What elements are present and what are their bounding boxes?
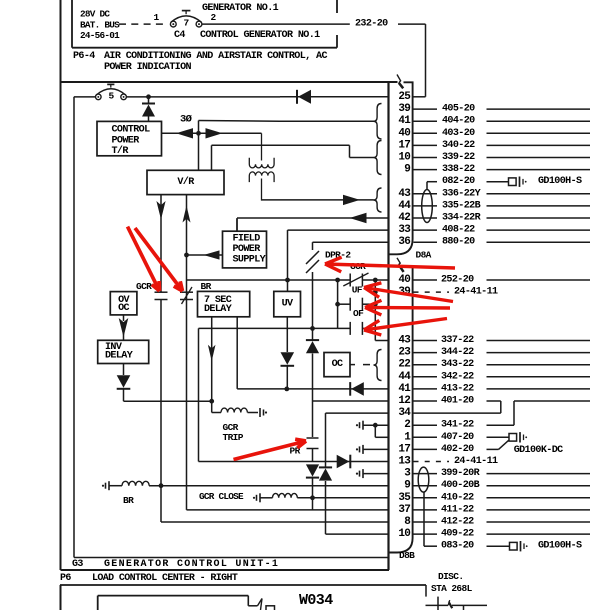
svg-text:40: 40 bbox=[398, 274, 410, 286]
svg-text:402-20: 402-20 bbox=[441, 444, 474, 455]
svg-text:404-20: 404-20 bbox=[442, 116, 475, 127]
svg-text:409-22: 409-22 bbox=[441, 529, 474, 540]
svg-text:24-56-01: 24-56-01 bbox=[80, 30, 120, 41]
svg-text:43: 43 bbox=[398, 335, 411, 347]
svg-text:342-22: 342-22 bbox=[441, 371, 474, 382]
svg-text:252-20: 252-20 bbox=[441, 275, 474, 286]
svg-text:336-22Y: 336-22Y bbox=[442, 188, 482, 199]
svg-text:24-41-11: 24-41-11 bbox=[454, 287, 498, 298]
svg-text:44: 44 bbox=[398, 200, 411, 212]
svg-text:GD100K-DC: GD100K-DC bbox=[514, 445, 563, 456]
svg-text:BR: BR bbox=[201, 281, 212, 292]
svg-text:413-22: 413-22 bbox=[441, 383, 474, 394]
svg-text:10: 10 bbox=[398, 152, 410, 164]
svg-text:22: 22 bbox=[398, 359, 410, 371]
svg-text:C4: C4 bbox=[174, 30, 185, 41]
svg-text:DELAY: DELAY bbox=[105, 351, 134, 362]
svg-text:3Ø: 3Ø bbox=[180, 114, 193, 126]
svg-text:UV: UV bbox=[282, 299, 294, 310]
svg-text:POWER: POWER bbox=[112, 135, 141, 146]
svg-text:41: 41 bbox=[398, 115, 411, 127]
svg-text:P6-4: P6-4 bbox=[73, 51, 95, 62]
svg-text:399-20R: 399-20R bbox=[441, 468, 481, 479]
svg-text:V/R: V/R bbox=[177, 176, 195, 188]
svg-text:405-20: 405-20 bbox=[442, 104, 475, 115]
svg-text:343-22: 343-22 bbox=[441, 359, 474, 370]
svg-text:FIELD: FIELD bbox=[233, 233, 261, 244]
svg-text:43: 43 bbox=[398, 188, 411, 200]
svg-text:411-22: 411-22 bbox=[441, 504, 474, 515]
svg-text:39: 39 bbox=[398, 103, 410, 115]
svg-text:POWER INDICATION: POWER INDICATION bbox=[104, 62, 192, 73]
svg-text:41: 41 bbox=[398, 383, 411, 395]
svg-text:412-22: 412-22 bbox=[441, 517, 474, 528]
svg-text:23: 23 bbox=[398, 347, 411, 359]
svg-text:344-22: 344-22 bbox=[441, 347, 474, 358]
svg-text:36: 36 bbox=[398, 236, 410, 248]
svg-text:401-20: 401-20 bbox=[441, 396, 474, 407]
svg-text:BR: BR bbox=[123, 495, 134, 506]
svg-text:AIR CONDITIONING AND AIRSTAIR: AIR CONDITIONING AND AIRSTAIR CONTROL, A… bbox=[104, 51, 327, 62]
svg-text:28V DC: 28V DC bbox=[80, 9, 110, 20]
svg-text:880-20: 880-20 bbox=[442, 237, 475, 248]
svg-text:UF: UF bbox=[352, 284, 363, 295]
svg-text:335-22B: 335-22B bbox=[442, 200, 481, 211]
svg-text:P6: P6 bbox=[60, 573, 71, 584]
svg-text:340-22: 340-22 bbox=[442, 140, 475, 151]
svg-text:24-41-11: 24-41-11 bbox=[454, 456, 498, 467]
svg-text:334-22R: 334-22R bbox=[442, 213, 482, 224]
svg-text:9: 9 bbox=[404, 480, 410, 492]
svg-text:40: 40 bbox=[398, 127, 410, 139]
svg-text:339-22: 339-22 bbox=[442, 152, 475, 163]
svg-text:D8A: D8A bbox=[416, 250, 432, 261]
svg-text:OC: OC bbox=[332, 359, 343, 370]
svg-text:GCR CLOSE: GCR CLOSE bbox=[199, 491, 244, 502]
svg-text:44: 44 bbox=[398, 371, 411, 383]
svg-text:408-22: 408-22 bbox=[442, 225, 475, 236]
svg-text:GD100H-S: GD100H-S bbox=[538, 541, 582, 552]
svg-text:232-20: 232-20 bbox=[355, 18, 388, 29]
svg-text:CONTROL GENERATOR NO.1: CONTROL GENERATOR NO.1 bbox=[200, 30, 320, 41]
svg-text:DISC.: DISC. bbox=[438, 571, 463, 582]
svg-text:400-20B: 400-20B bbox=[441, 480, 480, 491]
svg-text:407-20: 407-20 bbox=[441, 432, 474, 443]
svg-text:TRIP: TRIP bbox=[223, 432, 244, 443]
svg-text:403-20: 403-20 bbox=[442, 128, 475, 139]
svg-text:DELAY: DELAY bbox=[204, 304, 233, 315]
svg-text:D8B: D8B bbox=[399, 550, 415, 561]
svg-text:G3: G3 bbox=[72, 559, 83, 570]
svg-text:GD100H-S: GD100H-S bbox=[538, 176, 582, 187]
svg-text:2: 2 bbox=[404, 419, 410, 431]
svg-text:337-22: 337-22 bbox=[441, 335, 474, 346]
svg-text:17: 17 bbox=[398, 139, 410, 151]
svg-text:10: 10 bbox=[398, 528, 410, 540]
svg-text:12: 12 bbox=[398, 395, 410, 407]
svg-text:OF: OF bbox=[353, 308, 364, 319]
svg-text:SUPPLY: SUPPLY bbox=[233, 255, 267, 266]
svg-text:083-20: 083-20 bbox=[441, 541, 474, 552]
svg-text:42: 42 bbox=[398, 212, 410, 224]
svg-text:BAT. BUS: BAT. BUS bbox=[80, 19, 120, 30]
svg-text:25: 25 bbox=[398, 91, 411, 103]
svg-text:17: 17 bbox=[398, 443, 410, 455]
svg-text:GENERATOR CONTROL UNIT-1: GENERATOR CONTROL UNIT-1 bbox=[104, 559, 279, 570]
svg-text:W034: W034 bbox=[299, 592, 333, 609]
svg-text:POWER: POWER bbox=[233, 244, 262, 255]
svg-text:34: 34 bbox=[398, 407, 411, 419]
svg-text:37: 37 bbox=[398, 504, 410, 516]
svg-text:C14: C14 bbox=[168, 0, 185, 4]
svg-text:35: 35 bbox=[398, 492, 411, 504]
svg-text:STA 268L: STA 268L bbox=[431, 583, 473, 594]
svg-text:338-22: 338-22 bbox=[442, 164, 475, 175]
svg-text:CONTROL: CONTROL bbox=[112, 125, 151, 136]
svg-text:13: 13 bbox=[398, 456, 411, 468]
svg-text:410-22: 410-22 bbox=[441, 492, 474, 503]
svg-text:OC: OC bbox=[118, 303, 129, 314]
svg-text:33: 33 bbox=[398, 224, 411, 236]
svg-text:T/R: T/R bbox=[112, 145, 130, 157]
svg-text:LOAD CONTROL CENTER - RIGHT: LOAD CONTROL CENTER - RIGHT bbox=[92, 573, 238, 584]
svg-text:341-22: 341-22 bbox=[441, 420, 474, 431]
svg-text:9: 9 bbox=[404, 164, 410, 176]
svg-text:GCR: GCR bbox=[136, 281, 152, 292]
svg-text:082-20: 082-20 bbox=[442, 176, 475, 187]
